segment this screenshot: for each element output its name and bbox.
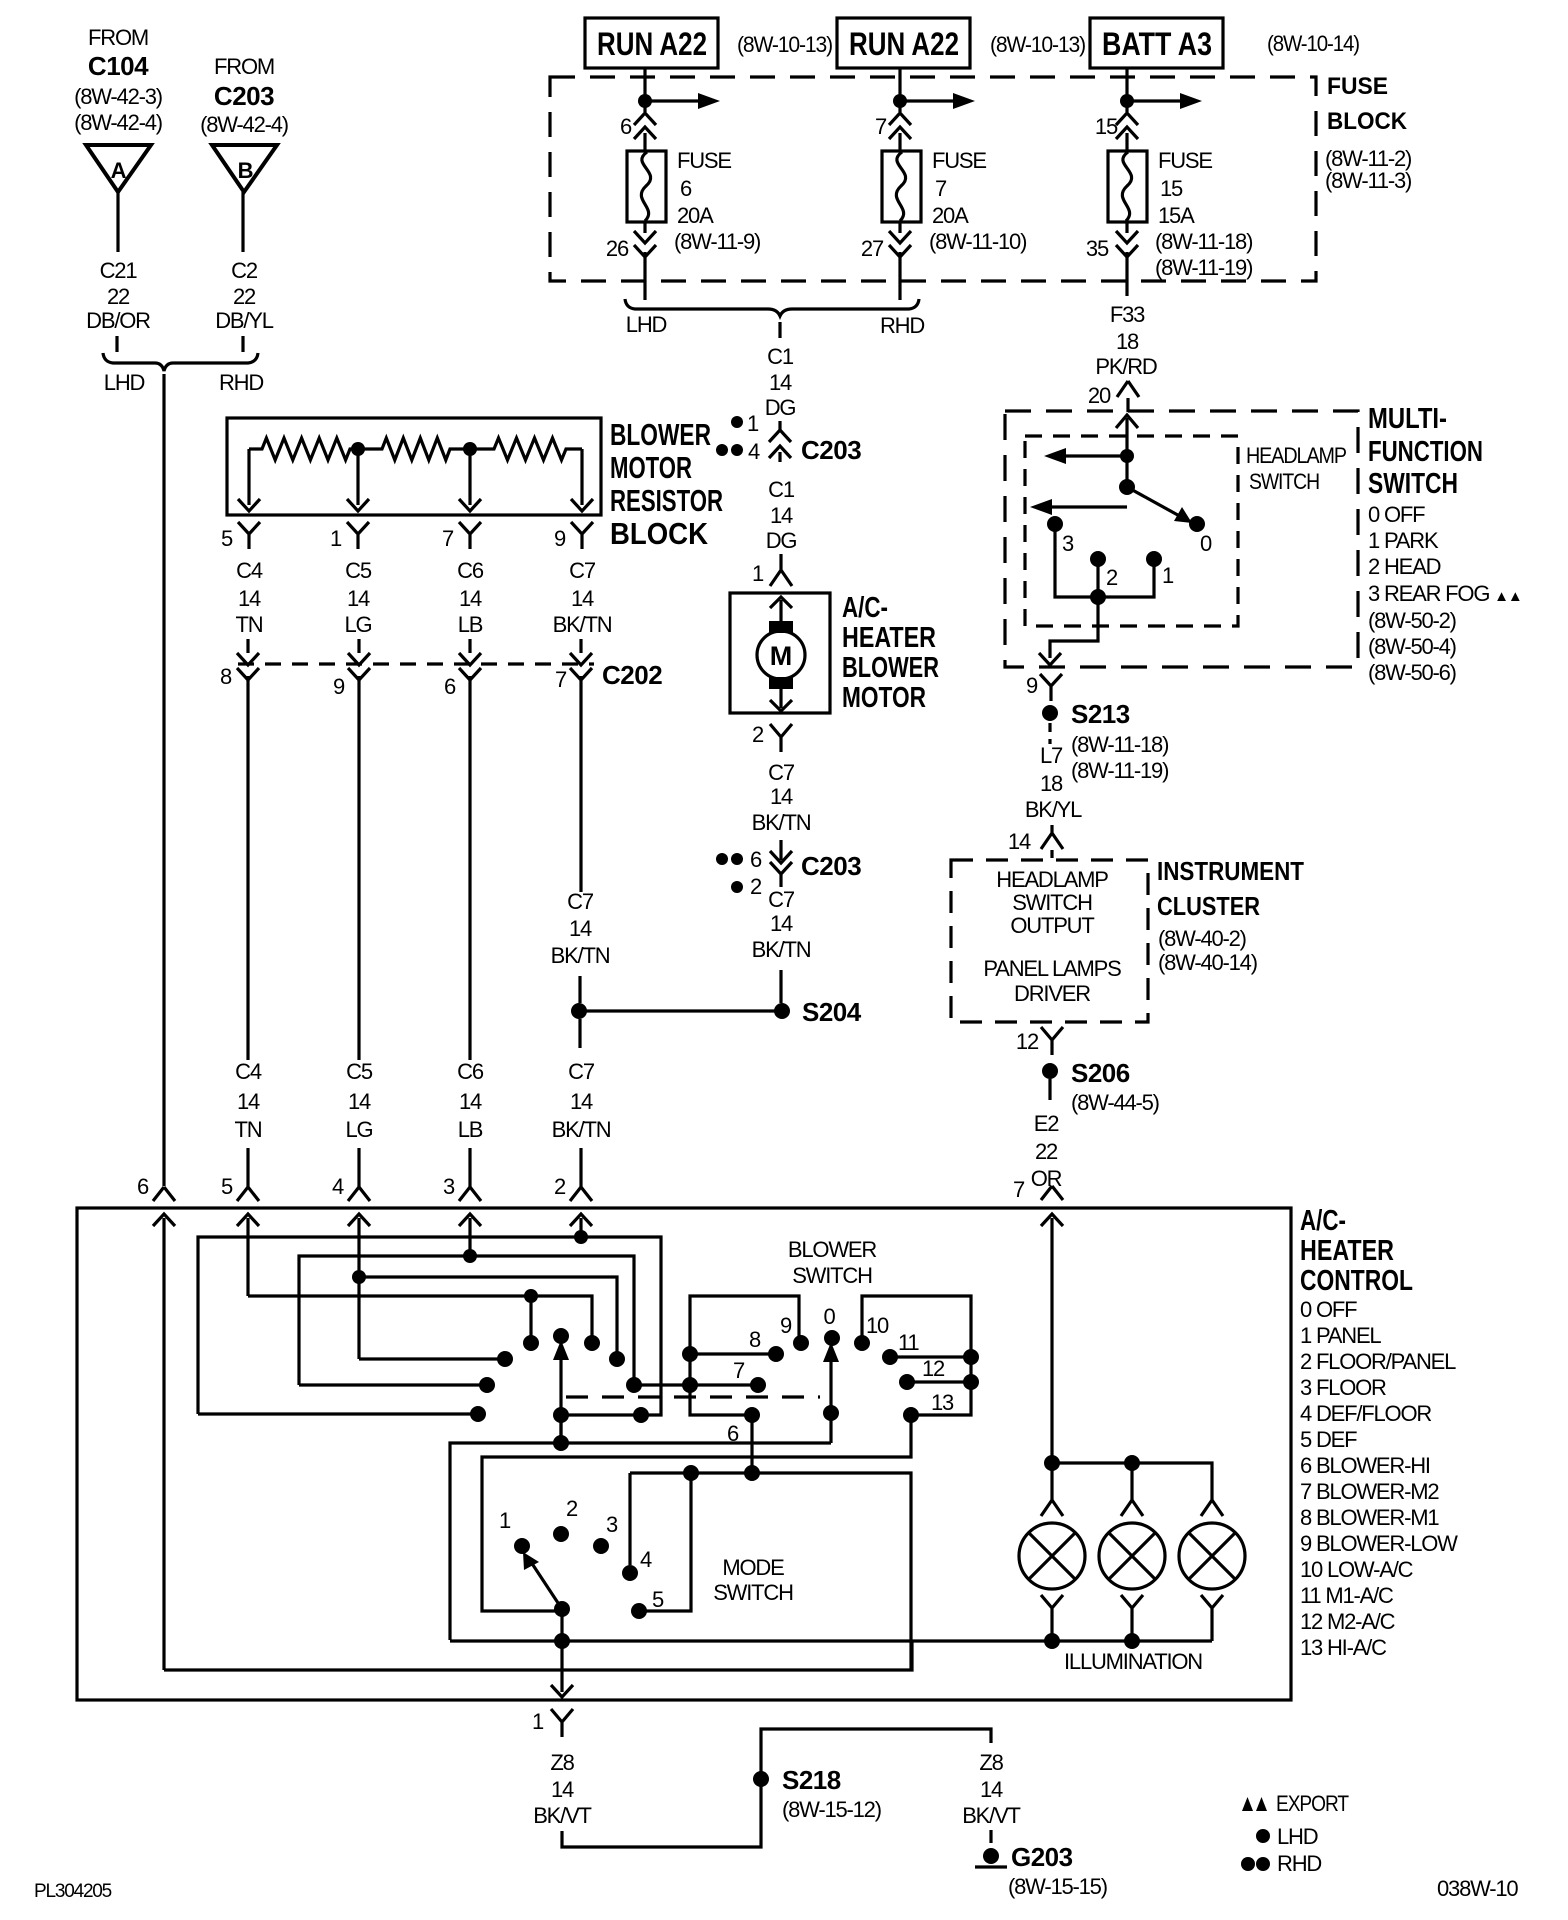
svg-text:0: 0	[1200, 531, 1212, 556]
svg-text:OUTPUT: OUTPUT	[1010, 913, 1094, 938]
wire S204 to C7 column	[579, 1009, 782, 1012]
svg-text:2 FLOOR/PANEL: 2 FLOOR/PANEL	[1300, 1349, 1456, 1374]
mode switch contact bus	[630, 1473, 911, 1670]
svg-text:14: 14	[238, 586, 261, 611]
wire C5 long run	[357, 676, 360, 1060]
wire headlamp output exits switch	[1050, 597, 1098, 658]
splice S206	[1042, 1063, 1058, 1079]
svg-text:PK/RD: PK/RD	[1095, 354, 1157, 379]
svg-text:FUSE: FUSE	[677, 148, 731, 173]
svg-text:14: 14	[1008, 829, 1031, 854]
wire illumination feed across bottom	[164, 1640, 912, 1670]
wire feed to wiper pivot	[1125, 456, 1128, 487]
headlamp switch inner dashed box	[1025, 436, 1238, 626]
svg-text:RHD: RHD	[1277, 1851, 1321, 1876]
svg-text:RHD: RHD	[880, 313, 924, 338]
svg-text:14: 14	[769, 370, 792, 395]
left wiper target dot f	[553, 1328, 569, 1344]
svg-text:DG: DG	[765, 395, 796, 420]
wire C4 to control box	[246, 1148, 249, 1187]
wire from B	[241, 192, 244, 252]
svg-text:1: 1	[499, 1508, 511, 1533]
ground G203	[983, 1848, 999, 1864]
svg-text:4: 4	[332, 1174, 344, 1199]
svg-text:BK/TN: BK/TN	[551, 943, 610, 968]
wire pin 7 panel lamps feed	[1050, 1218, 1053, 1463]
svg-text:(8W-11-10): (8W-11-10)	[929, 229, 1026, 254]
lamp return bus	[450, 1639, 1212, 1642]
svg-text:7: 7	[733, 1358, 745, 1383]
contact dot 10	[854, 1335, 870, 1351]
svg-text:7: 7	[1013, 1177, 1025, 1202]
svg-text:(8W-42-4): (8W-42-4)	[200, 112, 288, 137]
svg-text:C7: C7	[768, 760, 795, 785]
arrow tap fuse 6	[645, 99, 700, 102]
svg-text:RUN A22: RUN A22	[849, 26, 959, 62]
arrow tap fuse 7	[900, 99, 955, 102]
junction dot d	[524, 1289, 538, 1303]
svg-text:(8W-11-18): (8W-11-18)	[1155, 229, 1252, 254]
brace fuse outputs LHD/RHD	[625, 299, 919, 316]
svg-text:14: 14	[237, 1089, 260, 1114]
lamp 1 drop	[1050, 1463, 1053, 1500]
contact dot g	[584, 1335, 600, 1351]
svg-text:2: 2	[750, 874, 762, 899]
svg-text:DB/YL: DB/YL	[215, 308, 274, 333]
svg-text:TN: TN	[236, 612, 263, 637]
svg-text:4 DEF/FLOOR: 4 DEF/FLOOR	[1300, 1401, 1431, 1426]
node BATT A3	[1090, 18, 1223, 68]
row 11	[890, 1355, 971, 1358]
svg-text:BLOWER: BLOWER	[610, 417, 711, 452]
junction dot on wiper common rail	[553, 1435, 569, 1451]
wire long left feed	[162, 374, 165, 1186]
svg-text:A/C-: A/C-	[842, 592, 888, 624]
svg-text:E2: E2	[1034, 1111, 1059, 1136]
svg-text:9 BLOWER-LOW: 9 BLOWER-LOW	[1300, 1531, 1458, 1556]
svg-text:S206: S206	[1071, 1058, 1130, 1088]
connector C203 (upper) chevrons	[778, 421, 781, 432]
svg-text:14: 14	[348, 1089, 371, 1114]
svg-text:0: 0	[823, 1304, 835, 1329]
svg-text:ILLUMINATION: ILLUMINATION	[1064, 1649, 1202, 1674]
svg-text:C203: C203	[214, 81, 274, 111]
pin 7 chevron below edge	[1041, 1214, 1063, 1226]
resistor element 3	[470, 438, 582, 460]
illumination lamp 2	[1099, 1523, 1165, 1589]
wire drop pin 9	[580, 449, 583, 505]
illumination lamp 3	[1179, 1523, 1245, 1589]
junction dot pin 4 on rail 3	[352, 1270, 366, 1284]
lamp 3 return bail	[1201, 1595, 1223, 1641]
svg-text:C4: C4	[235, 1059, 262, 1084]
RHD marker dots 6	[716, 853, 728, 865]
contact dot rect A end	[470, 1406, 486, 1422]
svg-text:10: 10	[866, 1313, 889, 1338]
svg-text:RHD: RHD	[219, 370, 263, 395]
contact dot 4	[622, 1565, 638, 1581]
headlamp switch wiper pivot dot	[1119, 479, 1135, 495]
svg-text:12 M2-A/C: 12 M2-A/C	[1300, 1609, 1396, 1634]
svg-text:Z8: Z8	[979, 1750, 1003, 1775]
svg-text:1: 1	[752, 561, 764, 586]
svg-text:B: B	[238, 158, 253, 183]
contact dot j	[479, 1377, 495, 1393]
fuse 6	[627, 151, 666, 222]
illumination lamp 1	[1019, 1523, 1085, 1589]
svg-text:LHD: LHD	[626, 312, 667, 337]
svg-text:FROM: FROM	[88, 25, 148, 50]
junction dot resistor tap 2	[463, 442, 477, 456]
lamp 1 return bail	[1041, 1595, 1063, 1641]
svg-text:(8W-10-13): (8W-10-13)	[737, 32, 832, 57]
resistor element 2	[358, 438, 470, 460]
svg-text:14: 14	[459, 1089, 482, 1114]
junction dot pin 3 on rail 2	[463, 1249, 477, 1263]
svg-text:13 HI-A/C: 13 HI-A/C	[1300, 1635, 1387, 1660]
splice S204	[774, 1003, 790, 1019]
svg-text:5: 5	[652, 1587, 664, 1612]
svg-text:EXPORT: EXPORT	[1276, 1791, 1349, 1816]
svg-text:FUSE: FUSE	[932, 148, 986, 173]
wire pin 3 down	[468, 1218, 471, 1256]
svg-text:14: 14	[770, 784, 793, 809]
blower switch right loop	[862, 1296, 971, 1415]
svg-text:C7: C7	[567, 889, 594, 914]
wire dot d to contact e	[529, 1296, 532, 1343]
arrow into multi-function switch	[1116, 415, 1138, 428]
triangle connector A	[86, 145, 151, 192]
wire drop pin 7	[468, 449, 471, 505]
lamp 2 return bail	[1121, 1595, 1143, 1641]
wire stub B	[241, 336, 244, 352]
rect B bottom edge	[299, 1383, 487, 1386]
rail 5 from pin 4	[359, 1357, 505, 1360]
svg-text:C1: C1	[768, 477, 795, 502]
svg-text:BLOWER: BLOWER	[842, 652, 939, 684]
svg-text:S218: S218	[782, 1765, 841, 1795]
svg-text:2: 2	[554, 1174, 566, 1199]
svg-text:F33: F33	[1110, 302, 1145, 327]
arrow tap left lower	[1050, 505, 1127, 508]
svg-text:BK/TN: BK/TN	[752, 937, 811, 962]
svg-text:BK/TN: BK/TN	[553, 612, 612, 637]
headlamp switch wiper to position 0	[1127, 487, 1185, 519]
svg-text:C2: C2	[231, 258, 258, 283]
blower motor resistor block box	[227, 418, 601, 515]
svg-text:SWITCH: SWITCH	[713, 1580, 793, 1605]
svg-text:C203: C203	[801, 435, 861, 465]
svg-text:FROM: FROM	[214, 54, 274, 79]
rail 4 from pin 5	[248, 1296, 592, 1343]
svg-text:MULTI-: MULTI-	[1368, 403, 1447, 435]
svg-text:LHD: LHD	[104, 370, 145, 395]
wire C7 stub below junction	[578, 1019, 581, 1048]
legend export	[1242, 1797, 1253, 1811]
svg-text:038W-10: 038W-10	[1437, 1876, 1518, 1901]
wire contact 13 to mode feed rail	[482, 1415, 911, 1611]
svg-text:C4: C4	[236, 558, 263, 583]
RHD marker dots 4	[716, 444, 728, 456]
svg-text:C1: C1	[767, 344, 794, 369]
svg-text:(8W-11-19): (8W-11-19)	[1071, 758, 1168, 783]
svg-text:LHD: LHD	[1277, 1824, 1318, 1849]
junction dots on wiper shaft segment	[633, 1407, 649, 1423]
wire contact 1 to bus	[1098, 559, 1154, 597]
svg-text:27: 27	[861, 236, 884, 261]
svg-text:11: 11	[898, 1330, 919, 1355]
svg-text:20A: 20A	[932, 203, 969, 228]
svg-text:BK/VT: BK/VT	[533, 1803, 591, 1828]
mode switch wiper	[531, 1562, 562, 1609]
svg-text:14: 14	[770, 503, 793, 528]
svg-text:SWITCH: SWITCH	[1249, 469, 1319, 494]
row 12	[907, 1380, 971, 1383]
svg-text:7 BLOWER-M2: 7 BLOWER-M2	[1300, 1479, 1439, 1504]
junction dot pin 2 on rail 1	[574, 1230, 588, 1244]
wire 6 drop	[750, 1415, 753, 1473]
svg-text:14: 14	[551, 1777, 574, 1802]
svg-text:3 REAR FOG ▲▲: 3 REAR FOG ▲▲	[1368, 581, 1521, 606]
svg-text:SWITCH: SWITCH	[792, 1263, 872, 1288]
svg-text:(8W-10-14): (8W-10-14)	[1267, 31, 1359, 56]
junction dot headlamp feed	[1120, 449, 1134, 463]
contact dot 13	[903, 1407, 919, 1423]
svg-text:9: 9	[554, 526, 566, 551]
motor M circle	[757, 631, 805, 679]
svg-text:C7: C7	[569, 558, 596, 583]
svg-text:1: 1	[532, 1709, 544, 1734]
svg-text:MODE: MODE	[722, 1555, 784, 1580]
junction dot fuse 15 feed	[1120, 94, 1134, 108]
svg-text:BLOWER: BLOWER	[788, 1237, 876, 1262]
svg-text:8: 8	[220, 664, 232, 689]
svg-text:6 BLOWER-HI: 6 BLOWER-HI	[1300, 1453, 1430, 1478]
svg-text:18: 18	[1116, 329, 1139, 354]
junction dot resistor tap 1	[351, 442, 365, 456]
wire contact 3 to bus	[1055, 524, 1098, 597]
svg-text:26: 26	[606, 236, 629, 261]
wire C4 down	[246, 639, 249, 653]
wire C7 down	[579, 639, 582, 653]
svg-text:(8W-42-4): (8W-42-4)	[74, 110, 162, 135]
svg-text:(8W-10-13): (8W-10-13)	[990, 32, 1085, 57]
svg-text:7: 7	[935, 176, 947, 201]
mode switch common dot	[554, 1601, 570, 1617]
wire stub below brace	[778, 322, 781, 338]
svg-text:3: 3	[1062, 531, 1074, 556]
row 7	[634, 1383, 758, 1386]
svg-text:C7: C7	[768, 887, 795, 912]
wire BATT A3 to fuse 15	[1125, 68, 1128, 112]
svg-text:BLOCK: BLOCK	[610, 516, 709, 551]
svg-text:5 DEF: 5 DEF	[1300, 1427, 1357, 1452]
svg-text:OR: OR	[1031, 1166, 1062, 1191]
svg-text:0 OFF: 0 OFF	[1368, 502, 1425, 527]
svg-text:22: 22	[107, 284, 130, 309]
svg-text:1: 1	[747, 411, 759, 436]
svg-text:(8W-50-2): (8W-50-2)	[1368, 608, 1456, 633]
rail 1 rect A	[198, 1237, 661, 1415]
LHD marker dot 1	[731, 416, 743, 428]
svg-text:HEATER: HEATER	[1300, 1235, 1394, 1267]
splice S218	[753, 1771, 769, 1787]
contact dot 9	[793, 1335, 809, 1351]
svg-text:(8W-11-18): (8W-11-18)	[1071, 732, 1168, 757]
svg-text:Z8: Z8	[550, 1750, 574, 1775]
svg-text:14: 14	[347, 586, 370, 611]
svg-text:14: 14	[770, 911, 793, 936]
left wiper arrow of blower switch	[559, 1355, 562, 1443]
svg-text:SWITCH: SWITCH	[1368, 468, 1458, 500]
wire drop pin 5	[247, 449, 250, 505]
instrument cluster dashed box	[951, 860, 1148, 1022]
svg-text:S213: S213	[1071, 699, 1130, 729]
svg-text:(8W-11-9): (8W-11-9)	[674, 229, 760, 254]
svg-text:6: 6	[620, 114, 632, 139]
svg-text:C5: C5	[345, 558, 372, 583]
svg-text:0 OFF: 0 OFF	[1300, 1297, 1357, 1322]
svg-text:14: 14	[570, 1089, 593, 1114]
contact dot 5	[631, 1603, 647, 1619]
wire contact 5 riser	[639, 1473, 691, 1611]
svg-text:C202: C202	[602, 660, 662, 690]
svg-text:20A: 20A	[677, 203, 714, 228]
svg-text:M: M	[770, 641, 793, 671]
svg-text:6: 6	[137, 1174, 149, 1199]
svg-text:7: 7	[442, 526, 454, 551]
svg-text:2: 2	[1106, 565, 1118, 590]
svg-text:BK/YL: BK/YL	[1025, 797, 1082, 822]
svg-text:5: 5	[221, 1174, 233, 1199]
wire C6 down	[468, 639, 471, 653]
resistor element 1	[249, 438, 358, 460]
svg-text:15A: 15A	[1158, 203, 1195, 228]
connector C202 dashed line	[238, 662, 594, 665]
svg-text:LB: LB	[458, 612, 483, 637]
svg-text:2: 2	[566, 1496, 578, 1521]
svg-text:HEATER: HEATER	[842, 622, 936, 654]
mode contact 3	[593, 1538, 609, 1554]
svg-text:BK/TN: BK/TN	[752, 810, 811, 835]
wire to S204	[779, 970, 782, 1003]
wire stub to G203	[989, 1830, 992, 1843]
svg-text:(8W-15-12): (8W-15-12)	[782, 1797, 881, 1822]
legend RHD	[1241, 1857, 1255, 1871]
contact dot h	[609, 1351, 625, 1367]
junction dot contact 5 riser on bus	[683, 1465, 699, 1481]
svg-text:6: 6	[750, 847, 762, 872]
svg-text:11 M1-A/C: 11 M1-A/C	[1300, 1583, 1394, 1608]
svg-text:MOTOR: MOTOR	[610, 450, 692, 485]
svg-text:HEADLAMP: HEADLAMP	[1246, 443, 1346, 468]
svg-text:5: 5	[221, 526, 233, 551]
svg-text:13: 13	[931, 1390, 954, 1415]
blower switch left loop	[690, 1296, 799, 1415]
wire RUN A22 to fuse 7	[898, 68, 901, 112]
svg-text:(8W-50-6): (8W-50-6)	[1368, 660, 1456, 685]
wire C7 to control box	[579, 1148, 582, 1187]
svg-text:14: 14	[571, 586, 594, 611]
LHD marker dot 2	[731, 881, 743, 893]
wire to S218	[562, 1729, 991, 1847]
triangle connector B	[212, 145, 277, 192]
wire stub below S213	[1048, 723, 1051, 744]
contact dot 0	[824, 1330, 840, 1346]
svg-text:(8W-44-5): (8W-44-5)	[1071, 1090, 1159, 1115]
svg-text:C5: C5	[346, 1059, 373, 1084]
svg-text:A: A	[111, 158, 127, 183]
svg-text:1: 1	[330, 526, 342, 551]
svg-text:2 HEAD: 2 HEAD	[1368, 554, 1441, 579]
svg-text:18: 18	[1040, 771, 1063, 796]
lamp feed bus	[1052, 1463, 1212, 1500]
wire C6 to control box	[468, 1148, 471, 1187]
svg-text:INSTRUMENT: INSTRUMENT	[1157, 856, 1304, 886]
mode contact 1	[514, 1538, 530, 1554]
legend LHD	[1256, 1829, 1270, 1843]
wire pin 6 feed down	[162, 1218, 165, 1670]
svg-text:BLOCK: BLOCK	[1327, 108, 1408, 135]
splice S213	[1042, 705, 1058, 721]
svg-text:DG: DG	[766, 528, 797, 553]
svg-text:(8W-40-2): (8W-40-2)	[1158, 926, 1246, 951]
rail 3 from pin 4	[359, 1277, 617, 1359]
wire mode common down	[560, 1609, 563, 1641]
wire C5 down	[357, 639, 360, 653]
wire pin 2 down	[579, 1218, 582, 1237]
svg-text:3 FLOOR: 3 FLOOR	[1300, 1375, 1386, 1400]
svg-text:FUNCTION: FUNCTION	[1368, 436, 1483, 468]
multi-function switch outer dashed box	[1005, 411, 1358, 667]
contact dot i	[497, 1351, 513, 1367]
svg-text:LG: LG	[345, 612, 372, 637]
svg-text:C21: C21	[100, 258, 138, 283]
svg-text:22: 22	[233, 284, 256, 309]
svg-text:DRIVER: DRIVER	[1014, 981, 1090, 1006]
svg-text:G203: G203	[1011, 1842, 1073, 1872]
wire RUN A22 to fuse 6	[643, 68, 646, 112]
svg-text:BK/VT: BK/VT	[962, 1803, 1020, 1828]
motor commutator bottom	[769, 677, 793, 689]
svg-text:10 LOW-A/C: 10 LOW-A/C	[1300, 1557, 1414, 1582]
right wiper arrow of blower switch	[829, 1357, 832, 1443]
svg-text:CONTROL: CONTROL	[1300, 1265, 1413, 1297]
svg-text:9: 9	[333, 674, 345, 699]
fuse 15	[1108, 151, 1147, 222]
svg-text:(8W-11-19): (8W-11-19)	[1155, 255, 1252, 280]
svg-text:S204: S204	[802, 997, 862, 1027]
svg-text:3: 3	[443, 1174, 455, 1199]
svg-text:BATT A3: BATT A3	[1102, 26, 1212, 62]
arrow out of motor	[779, 689, 782, 708]
arrow into motor	[770, 597, 792, 608]
rect A bottom edge	[198, 1412, 478, 1415]
wire C7 stub to junction	[578, 976, 581, 1003]
node RUN A22 (right)	[837, 18, 970, 68]
wire mode common to pin 1	[560, 1641, 563, 1692]
LHD/RHD dashed divider	[566, 1395, 820, 1398]
junction dot 6-wire on bus	[744, 1465, 760, 1481]
svg-text:8: 8	[749, 1327, 761, 1352]
row 8	[690, 1352, 776, 1355]
svg-text:FUSE: FUSE	[1158, 148, 1212, 173]
svg-text:6: 6	[444, 674, 456, 699]
svg-text:8 BLOWER-M1: 8 BLOWER-M1	[1300, 1505, 1439, 1530]
contact dot e	[523, 1335, 539, 1351]
sections injected below	[74, 25, 288, 1186]
arrow tap left upper	[1064, 454, 1127, 457]
